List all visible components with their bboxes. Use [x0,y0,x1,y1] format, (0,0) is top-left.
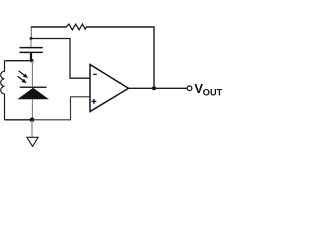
wire left branch top stub [5,60,32,62]
node (output junction) [152,86,156,90]
wire photodiode cathode lead [31,61,33,87]
wire bottom (non-inverting feed) [32,97,90,120]
wire inverting input feed [31,39,90,79]
capacitor (feedback) top lead [30,39,32,48]
node (inverting input tap junction) [30,37,33,40]
op-amp inverting input minus sign [93,73,97,75]
op-amp non-inverting input plus sign [92,99,97,104]
light arrow 1 [19,71,28,78]
wire photodiode anode lead [31,99,33,120]
wire top feedback (resistor to output branch) [86,27,154,88]
node (ground junction) [30,118,35,123]
wire op-amp output [129,87,155,89]
resistor (feedback) [66,24,86,30]
capacitor (feedback) plates [20,48,43,53]
light arrow 2 [18,76,27,83]
wire left branch bottom stub [5,119,33,121]
photodiode triangle [17,88,49,100]
op-amp U1 triangle [90,65,129,112]
photodiode cathode bar [20,86,47,88]
capacitor (feedback) bottom lead [30,52,32,60]
inductor (left branch coil) [1,61,5,120]
wire output to terminal [154,87,187,89]
label VOUT [194,81,222,97]
node (photodiode cathode junction) [30,59,33,62]
wire ground lead [31,120,33,137]
wire top feedback (left riser) [30,28,32,39]
terminal VOUT open circle [187,86,192,91]
ground [27,137,38,146]
svg-text:OUT: OUT [203,87,223,97]
wire top feedback (horizontal to resistor) [31,26,66,28]
